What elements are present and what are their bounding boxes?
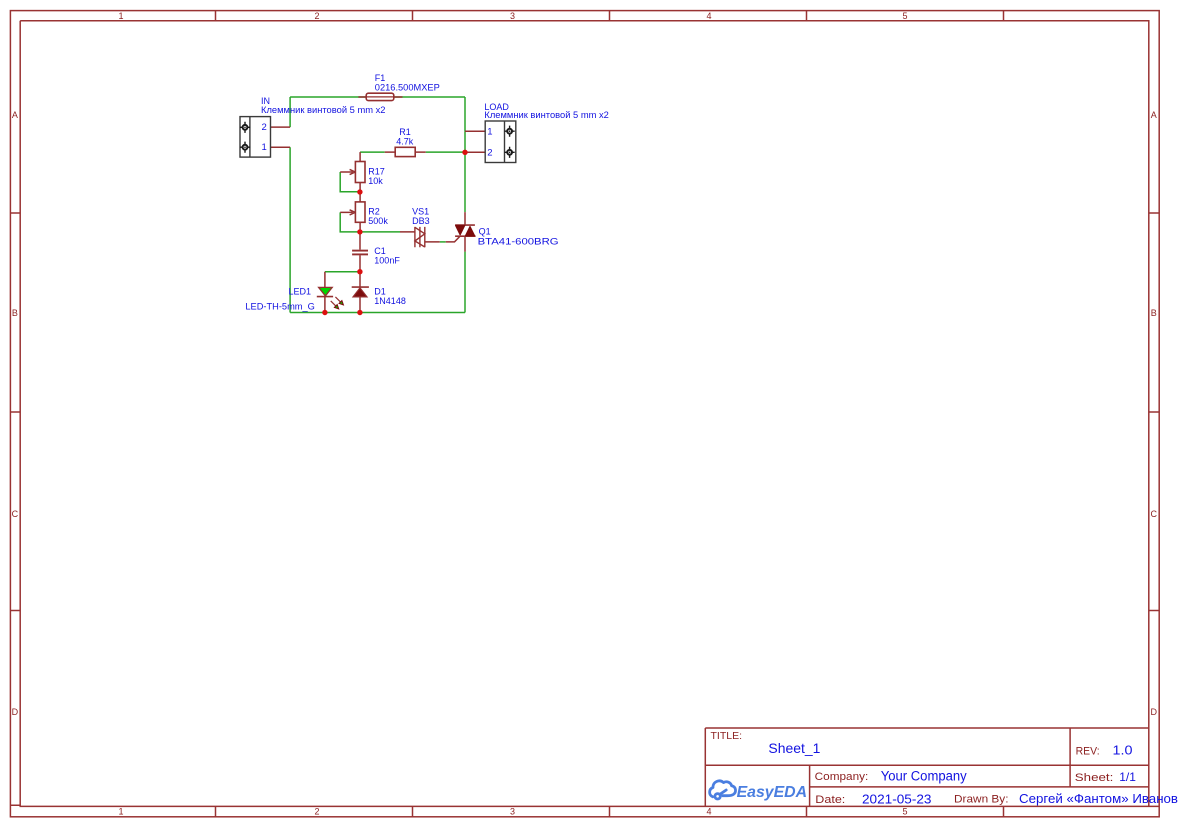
svg-text:1.0: 1.0 [1113, 743, 1133, 757]
svg-text:3: 3 [510, 11, 515, 21]
connector LOAD screw 1 [505, 126, 515, 137]
resistor R2 pins [359, 192, 361, 232]
svg-text:D: D [1150, 707, 1157, 717]
svg-text:1: 1 [118, 807, 123, 817]
svg-text:DB3: DB3 [412, 216, 430, 226]
wire IN pin2 riser [289, 97, 291, 127]
column tick marks bottom [216, 806, 1004, 816]
svg-text:Company:: Company: [815, 771, 869, 783]
svg-text:Date:: Date: [815, 794, 845, 806]
svg-text:VS1: VS1 [412, 206, 429, 216]
svg-text:100nF: 100nF [374, 256, 400, 266]
EasyEDA logo cloud [710, 781, 736, 799]
wire diac to triac gate [440, 241, 446, 243]
svg-text:2021-05-23: 2021-05-23 [862, 793, 932, 807]
svg-text:EasyEDA: EasyEDA [737, 784, 808, 801]
svg-text:4: 4 [706, 11, 711, 21]
junction node LED bottom [322, 310, 327, 315]
svg-text:1: 1 [262, 142, 267, 153]
R2 wiper arrow [340, 210, 355, 215]
svg-text:10k: 10k [368, 176, 383, 186]
svg-text:A: A [1151, 110, 1157, 120]
svg-text:1: 1 [118, 11, 123, 21]
svg-text:Your Company: Your Company [881, 769, 967, 784]
resistor R17 pins [359, 152, 361, 192]
svg-text:1: 1 [487, 126, 492, 137]
triac Q1 pins [464, 212, 466, 252]
junction node C1-LED-D1 [357, 269, 362, 274]
LED1 symbol [317, 287, 345, 310]
svg-text:4.7k: 4.7k [396, 136, 414, 146]
column tick marks top [216, 11, 1004, 21]
diode D1 symbol [352, 287, 369, 297]
svg-text:Клеммник винтовой 5 mm x2: Клеммник винтовой 5 mm x2 [261, 105, 386, 115]
diac VS1 pins [400, 232, 440, 242]
diode D1 pins [359, 272, 361, 313]
capacitor C1 pins [359, 232, 361, 272]
LED1 pins [324, 272, 326, 313]
svg-text:1/1: 1/1 [1119, 770, 1136, 784]
svg-text:4: 4 [706, 807, 711, 817]
connector LOAD screw 2 [505, 147, 515, 158]
diac VS1 symbol [415, 227, 425, 247]
svg-text:REV:: REV: [1076, 746, 1100, 758]
svg-text:C: C [12, 509, 19, 519]
svg-text:TITLE:: TITLE: [711, 731, 743, 742]
svg-text:C: C [1150, 509, 1157, 519]
svg-text:5: 5 [902, 807, 907, 817]
svg-text:3: 3 [510, 807, 515, 817]
svg-text:Q1: Q1 [479, 226, 491, 236]
resistor R17 body [355, 162, 365, 183]
wire right vertical to LOAD pin2 node [464, 131, 466, 152]
svg-text:LED1: LED1 [289, 287, 312, 297]
svg-text:2: 2 [487, 147, 492, 158]
svg-text:2: 2 [262, 122, 267, 133]
svg-text:2: 2 [314, 11, 319, 21]
junction node D1 bottom [357, 310, 362, 315]
connector IN screw 2 [240, 122, 250, 133]
wire R1 left segment [360, 151, 385, 153]
labels [245, 73, 609, 311]
svg-text:B: B [12, 308, 18, 318]
svg-text:1N4148: 1N4148 [374, 296, 406, 306]
resistor R1 body [395, 147, 415, 156]
wire right vertical top segment [464, 97, 466, 131]
pin IN 2 [271, 126, 291, 128]
svg-text:R1: R1 [399, 127, 411, 137]
row tick marks left [10, 213, 20, 805]
svg-text:500k: 500k [368, 216, 388, 226]
svg-text:R2: R2 [368, 206, 380, 216]
svg-text:D1: D1 [374, 286, 386, 296]
triac Q1 symbol [455, 225, 476, 236]
wire R1 right segment to node [426, 151, 465, 153]
svg-text:Drawn By:: Drawn By: [954, 793, 1009, 805]
row tick marks right [1149, 213, 1159, 611]
junction node R17-R2 [357, 189, 362, 194]
junction node R2-C1-diac [357, 229, 362, 234]
connector IN body [240, 117, 271, 158]
connector LOAD body [485, 121, 516, 163]
wire triac MT1 to bottom net [464, 252, 466, 313]
pin IN 1 [271, 146, 291, 148]
svg-text:5: 5 [902, 11, 907, 21]
svg-text:D: D [12, 707, 19, 717]
wire R2 bottom node to diac [360, 231, 400, 233]
pin LOAD 2 [465, 151, 485, 153]
svg-text:B: B [1151, 308, 1157, 318]
svg-text:LED-TH-5mm_G: LED-TH-5mm_G [245, 301, 315, 311]
svg-text:R17: R17 [368, 166, 385, 176]
wire bottom net [290, 312, 465, 314]
pin LOAD 1 [465, 130, 485, 132]
title block frame [705, 728, 1149, 806]
svg-text:Клеммник винтовой 5 mm x2: Клеммник винтовой 5 mm x2 [484, 110, 609, 120]
svg-text:A: A [12, 110, 18, 120]
wire left vertical from IN pin1 down [289, 147, 291, 312]
svg-text:Сергей «Фантом» Иванов: Сергей «Фантом» Иванов [1019, 792, 1178, 806]
wire R2 wiper loop [340, 212, 360, 232]
wire top net from IN pin2 to LOAD pin1 [290, 96, 465, 98]
wire R17 wiper loop [340, 172, 360, 192]
junction node at LOAD pin2 [462, 150, 467, 155]
R17 wiper arrow [340, 169, 355, 174]
fuse F1 leads [358, 96, 402, 98]
svg-text:Sheet:: Sheet: [1075, 772, 1114, 784]
svg-text:Sheet_1: Sheet_1 [768, 740, 820, 756]
capacitor C1 plates [352, 251, 368, 255]
fuse F1 body [366, 93, 394, 100]
wire LED top to C1 bottom node [325, 271, 360, 273]
wire right vertical to triac MT2 [464, 152, 466, 212]
LED1 emission arrows [329, 296, 344, 311]
resistor R2 body [355, 202, 365, 222]
svg-text:2: 2 [314, 807, 319, 817]
connector IN screw 1 [240, 142, 250, 153]
svg-text:0216.500MXEP: 0216.500MXEP [375, 82, 440, 92]
triac Q1 gate lead [446, 236, 460, 242]
svg-text:BTA41-600BRG: BTA41-600BRG [478, 236, 559, 246]
resistor R1 leads [385, 151, 426, 153]
